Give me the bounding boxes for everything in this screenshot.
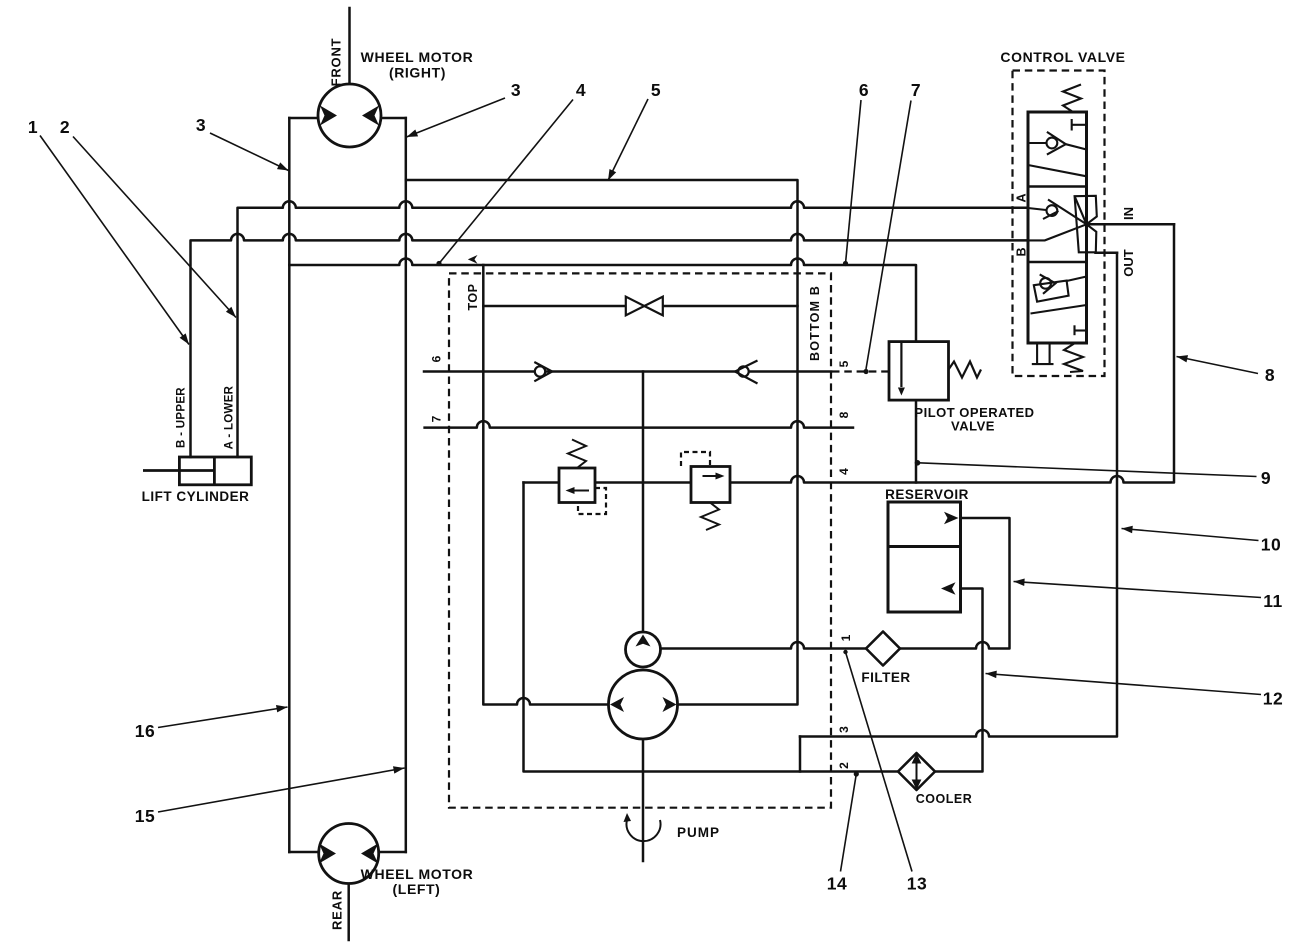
svg-text:16: 16	[135, 721, 155, 741]
svg-text:2: 2	[837, 762, 851, 769]
svg-text:7: 7	[911, 80, 921, 100]
svg-text:OUT: OUT	[1121, 249, 1136, 277]
svg-text:13: 13	[907, 874, 927, 894]
svg-text:(LEFT): (LEFT)	[393, 881, 441, 897]
svg-text:11: 11	[1263, 591, 1283, 611]
svg-text:8: 8	[837, 411, 851, 418]
svg-text:15: 15	[135, 806, 155, 826]
svg-text:B - UPPER: B - UPPER	[176, 387, 188, 448]
svg-text:7: 7	[430, 415, 444, 422]
svg-text:WHEEL MOTOR: WHEEL MOTOR	[361, 866, 474, 882]
svg-text:IN: IN	[1121, 207, 1136, 220]
svg-text:COOLER: COOLER	[916, 792, 972, 806]
svg-text:6: 6	[430, 355, 444, 362]
svg-text:A: A	[1015, 193, 1029, 202]
svg-text:FILTER: FILTER	[861, 670, 910, 685]
svg-text:10: 10	[1261, 535, 1281, 555]
svg-text:14: 14	[827, 874, 847, 894]
svg-text:3: 3	[196, 115, 206, 135]
svg-text:12: 12	[1263, 689, 1283, 709]
svg-text:3: 3	[837, 726, 851, 733]
svg-text:5: 5	[651, 80, 661, 100]
svg-text:TOP: TOP	[466, 284, 480, 311]
svg-text:LIFT CYLINDER: LIFT CYLINDER	[142, 489, 250, 504]
svg-text:9: 9	[1261, 468, 1271, 488]
svg-text:B: B	[1015, 247, 1029, 256]
svg-text:3: 3	[511, 80, 521, 100]
svg-text:RESERVOIR: RESERVOIR	[885, 487, 969, 502]
svg-text:PUMP: PUMP	[677, 825, 720, 840]
svg-text:6: 6	[859, 80, 869, 100]
svg-text:FRONT: FRONT	[329, 38, 344, 87]
svg-text:8: 8	[1265, 365, 1275, 385]
svg-text:4: 4	[576, 80, 586, 100]
svg-text:1: 1	[839, 634, 853, 641]
svg-text:(RIGHT): (RIGHT)	[389, 65, 446, 81]
svg-text:A - LOWER: A - LOWER	[224, 385, 236, 449]
svg-text:CONTROL VALVE: CONTROL VALVE	[1000, 49, 1125, 65]
svg-text:WHEEL MOTOR: WHEEL MOTOR	[361, 49, 474, 65]
svg-text:5: 5	[837, 360, 851, 367]
svg-text:REAR: REAR	[330, 890, 345, 930]
svg-text:VALVE: VALVE	[951, 419, 995, 434]
svg-text:4: 4	[837, 468, 851, 475]
svg-text:BOTTOM B: BOTTOM B	[808, 285, 822, 361]
svg-text:1: 1	[28, 117, 38, 137]
svg-text:2: 2	[60, 117, 70, 137]
